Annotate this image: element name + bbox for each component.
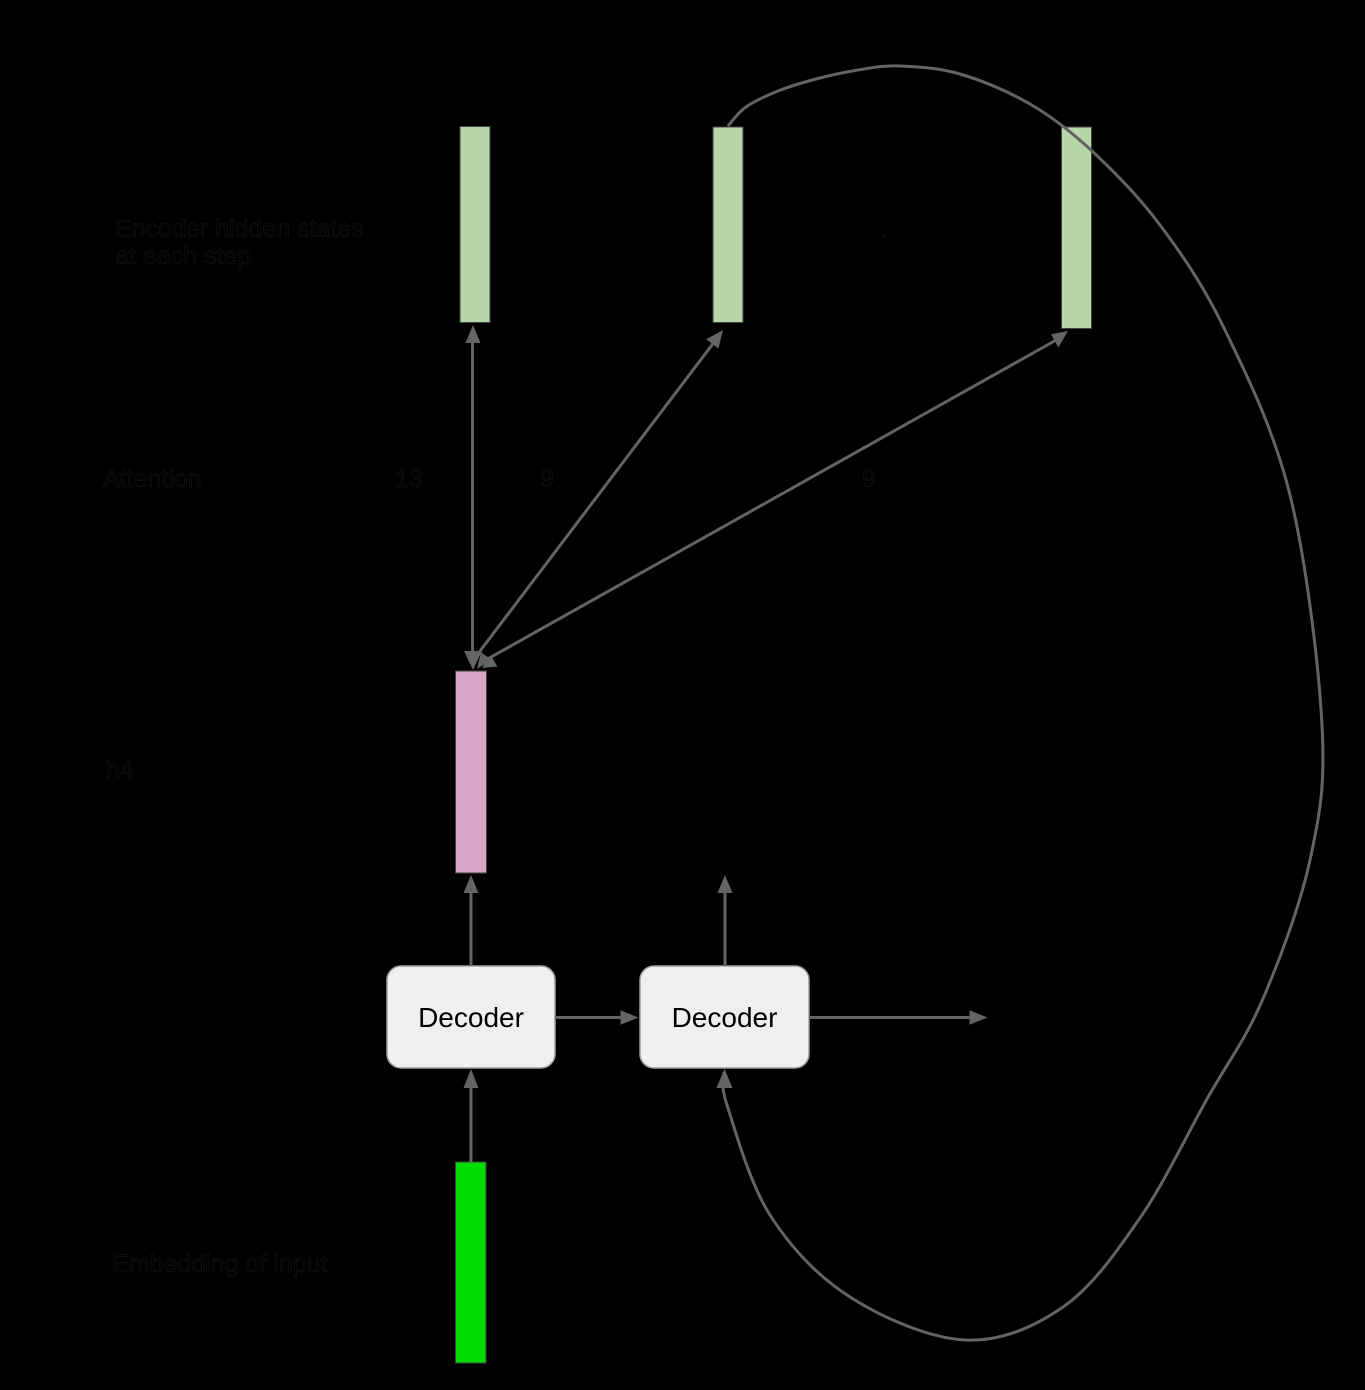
svg-text:Embedding of input: Embedding of input <box>112 1250 327 1278</box>
svg-text:Attention: Attention <box>103 465 202 493</box>
svg-text:9: 9 <box>862 465 876 493</box>
svg-text:h4: h4 <box>106 756 134 784</box>
svg-text:9: 9 <box>540 465 554 493</box>
svg-text:Decoder: Decoder <box>418 1002 524 1033</box>
svg-text:Encoder hidden states: Encoder hidden states <box>115 215 364 243</box>
svg-text:Decoder: Decoder <box>672 1002 778 1033</box>
svg-text:at each step: at each step <box>115 242 251 270</box>
svg-text:13: 13 <box>395 465 423 493</box>
svg-text:.: . <box>880 216 887 244</box>
